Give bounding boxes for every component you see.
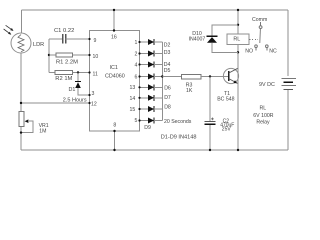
svg-text:BC 548: BC 548	[217, 96, 234, 102]
svg-text:D7: D7	[164, 95, 171, 101]
wire LDR bottom to VR1 top	[20, 53, 22, 112]
junction dot bus/R3	[161, 75, 163, 77]
svg-text:8: 8	[113, 123, 116, 129]
svg-text:11: 11	[93, 72, 98, 78]
resistor R2	[49, 71, 90, 75]
wire battery vertical bottom	[287, 90, 289, 150]
svg-text:1M: 1M	[39, 129, 46, 135]
wire pin 16 to top rail	[113, 10, 115, 31]
svg-text:R1 2.2M: R1 2.2M	[56, 60, 78, 66]
diode D5	[138, 74, 162, 80]
wire bottom ground rail	[21, 149, 288, 151]
junction dot node A / R1	[48, 54, 50, 56]
wire relay coil bottom segment	[237, 45, 239, 50]
svg-text:D1: D1	[69, 87, 76, 93]
transistor T1 BC548	[223, 68, 238, 83]
svg-text:C1 0.22: C1 0.22	[54, 28, 74, 34]
wire left vertical from top rail to LDR	[21, 10, 23, 33]
junction dot D10 top	[237, 24, 239, 26]
potentiometer VR1	[19, 112, 33, 134]
diode D3	[138, 51, 162, 57]
svg-text:5: 5	[135, 118, 138, 124]
svg-text:Comm: Comm	[252, 17, 267, 23]
junction dot R2 / D1	[77, 71, 79, 73]
diode D1	[75, 73, 89, 96]
junction dot pin16 box	[113, 29, 115, 31]
svg-text:9V DC: 9V DC	[259, 82, 275, 88]
junction dot emitter ground	[237, 149, 239, 151]
svg-text:D5: D5	[164, 68, 171, 74]
svg-text:2: 2	[135, 52, 138, 58]
wire relay from top rail	[237, 10, 239, 34]
svg-text:NO: NO	[245, 49, 253, 55]
relay actuation dashed link	[249, 38, 258, 40]
svg-text:NC: NC	[269, 49, 277, 55]
wire bus to R3	[162, 76, 181, 78]
IC U1 IC1 CD4060 box	[90, 31, 140, 132]
node A left bus of oscillator RC network	[48, 39, 50, 73]
junction dot base/C2	[209, 75, 211, 77]
svg-text:9: 9	[94, 38, 97, 44]
junction dot pin8 rail	[113, 149, 115, 151]
svg-text:16: 16	[111, 35, 117, 41]
svg-text:D9: D9	[144, 125, 151, 131]
svg-text:D3: D3	[164, 50, 171, 56]
svg-text:D8: D8	[164, 105, 171, 111]
wire collector-emitter vertical	[237, 45, 239, 150]
wire pin 8 to ground rail	[114, 131, 116, 150]
svg-text:RL: RL	[260, 106, 267, 112]
diode D9	[138, 118, 162, 124]
relay lever	[259, 29, 262, 43]
svg-text:14: 14	[130, 96, 136, 102]
wire VR1 bottom to ground rail	[20, 127, 22, 151]
svg-text:LDR: LDR	[33, 42, 44, 48]
svg-text:20 Seconds: 20 Seconds	[164, 119, 192, 125]
svg-text:10: 10	[93, 54, 99, 60]
svg-text:RL: RL	[233, 36, 240, 42]
svg-text:6V 100R: 6V 100R	[253, 113, 273, 119]
capacitor C1	[49, 34, 90, 43]
wire pin 12 to LDR/VR1 junction	[21, 102, 90, 104]
svg-text:25V: 25V	[222, 127, 232, 133]
diode D2	[138, 39, 162, 45]
relay comm contact circle	[259, 26, 262, 29]
svg-text:D6: D6	[164, 85, 171, 91]
relay NO contact	[255, 45, 258, 51]
diode D4	[138, 62, 162, 68]
relay NC contact	[266, 45, 269, 51]
svg-text:D2: D2	[164, 43, 171, 49]
capacitor C2	[204, 77, 215, 151]
svg-text:D1-D9 IN4148: D1-D9 IN4148	[161, 134, 197, 140]
LDR photoresistor	[4, 25, 31, 53]
svg-text:13: 13	[130, 85, 136, 91]
svg-text:6: 6	[135, 75, 138, 81]
svg-text:4: 4	[135, 62, 138, 68]
svg-text:15: 15	[130, 107, 136, 113]
resistor R3	[182, 74, 229, 78]
svg-text:CD4060: CD4060	[105, 74, 125, 80]
junction dot C2 ground	[209, 149, 211, 151]
junction dot relay rail	[237, 9, 239, 11]
diode D8	[138, 106, 162, 112]
svg-text:R2 1M: R2 1M	[55, 76, 72, 82]
diode D6	[138, 84, 162, 90]
junction dots at left pins	[88, 38, 90, 40]
battery 9V DC	[281, 78, 296, 90]
diode D10 flyback	[207, 25, 239, 53]
junction dot LDR/VR1/pin12	[20, 102, 22, 104]
svg-text:Relay: Relay	[256, 119, 270, 125]
junction dot pin16 rail	[113, 9, 115, 11]
svg-text:IN4007: IN4007	[189, 36, 206, 42]
resistor R1	[49, 53, 90, 57]
svg-text:2.5 Hours: 2.5 Hours	[63, 98, 87, 104]
wire top supply rail	[22, 9, 289, 11]
svg-text:12: 12	[91, 101, 97, 107]
junction dot D10 bottom	[237, 51, 239, 53]
svg-text:3: 3	[92, 91, 95, 97]
svg-text:1K: 1K	[186, 88, 193, 94]
svg-text:1: 1	[135, 40, 138, 46]
wire battery vertical top	[287, 10, 289, 76]
diode D7	[138, 95, 162, 101]
cathode bus of D2-D9	[161, 42, 163, 121]
relay contact comm lead	[260, 22, 262, 26]
junction dot pin8 box	[113, 130, 115, 132]
relay coil RL box	[227, 34, 249, 45]
svg-text:IC1: IC1	[110, 65, 118, 71]
